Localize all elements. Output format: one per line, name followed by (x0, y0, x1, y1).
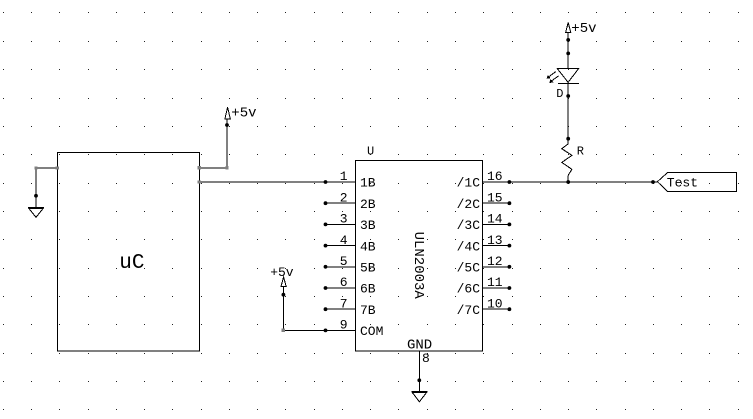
svg-text:1B: 1B (360, 176, 376, 191)
svg-text:10: 10 (487, 296, 503, 311)
svg-text:3: 3 (340, 212, 348, 227)
svg-text:Test: Test (667, 176, 698, 191)
svg-text:14: 14 (487, 212, 503, 227)
svg-text:5B: 5B (360, 261, 376, 276)
svg-text:2: 2 (340, 190, 348, 205)
svg-text:6B: 6B (360, 282, 376, 297)
svg-text:U: U (367, 144, 374, 158)
svg-text:4B: 4B (360, 239, 376, 254)
svg-text:16: 16 (487, 169, 503, 184)
svg-text:7: 7 (340, 296, 348, 311)
svg-text:2B: 2B (360, 197, 376, 212)
svg-text:7B: 7B (360, 303, 376, 318)
svg-text:+5v: +5v (231, 105, 256, 121)
svg-text:11: 11 (487, 275, 503, 290)
svg-text:1: 1 (340, 169, 348, 184)
svg-text:13: 13 (487, 233, 503, 248)
svg-text:12: 12 (487, 254, 503, 269)
svg-text:+5v: +5v (571, 21, 596, 37)
svg-text:/5C: /5C (457, 261, 481, 276)
svg-text:9: 9 (340, 318, 348, 333)
svg-text:D: D (556, 87, 563, 101)
svg-text:8: 8 (422, 351, 430, 366)
svg-text:4: 4 (340, 233, 348, 248)
svg-text:/3C: /3C (457, 218, 481, 233)
svg-text:COM: COM (360, 324, 383, 339)
svg-text:uC: uC (119, 252, 144, 275)
svg-text:/6C: /6C (457, 282, 481, 297)
svg-text:/7C: /7C (457, 303, 481, 318)
svg-text:6: 6 (340, 275, 348, 290)
svg-text:/2C: /2C (457, 197, 481, 212)
svg-text:+5v: +5v (270, 265, 294, 280)
svg-text:R: R (577, 144, 584, 158)
svg-text:15: 15 (487, 190, 503, 205)
svg-text:/4C: /4C (457, 239, 481, 254)
svg-text:ULN2003A: ULN2003A (410, 232, 426, 300)
svg-text:/1C: /1C (457, 176, 481, 191)
svg-text:3B: 3B (360, 218, 376, 233)
svg-text:5: 5 (340, 254, 348, 269)
